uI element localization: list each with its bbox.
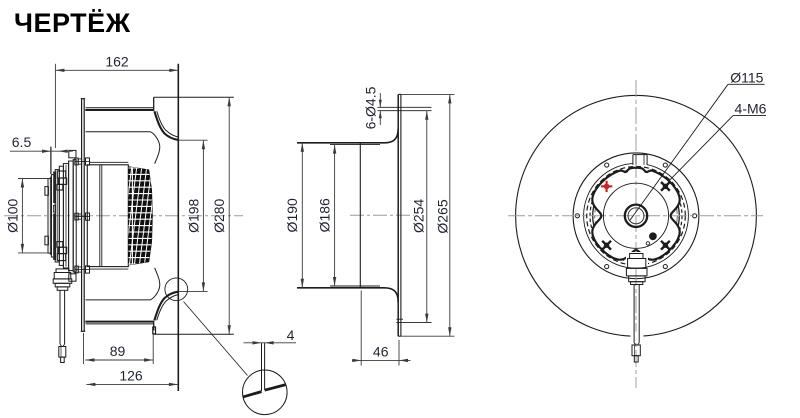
right view: centerlines: [635, 80, 637, 388]
right view: bolt circle D115 centerline circle: [595, 175, 678, 258]
dimension D190: [284, 143, 304, 288]
svg-text:Ø254: Ø254: [410, 199, 426, 233]
right view: motor flange wavy edge: [592, 168, 679, 260]
svg-text:89: 89: [110, 343, 126, 359]
left view: motor housing stepped profile: [48, 160, 76, 272]
svg-text:162: 162: [105, 54, 129, 70]
left view: mounting plate: [81, 99, 86, 332]
middle view: inlet ring cylinder: [297, 143, 380, 288]
right view: stator rings dashed: [587, 167, 686, 266]
left view: motor clamp band dark segments: [53, 172, 56, 261]
svg-text:4: 4: [287, 327, 295, 343]
right view: cable through circle with break: [631, 332, 644, 340]
left view: motor cable and connector: [59, 290, 66, 362]
svg-text:Ø115: Ø115: [730, 69, 763, 85]
svg-text:Ø198: Ø198: [185, 198, 201, 232]
right view: shaft center circles: [625, 205, 647, 227]
right view: four M6 holes with position marks: [601, 181, 670, 250]
right view: flange inner boss circle: [603, 183, 668, 248]
dimension 6.5: [10, 134, 73, 174]
right view: impeller outer circle D280: [516, 95, 757, 336]
dimension 6-D4.5: [363, 86, 382, 129]
middle view: flange face: [398, 94, 401, 336]
label 4-M6 with leader: [668, 101, 766, 182]
right view: support ring inner circle: [584, 163, 689, 268]
svg-text:Ø100: Ø100: [5, 198, 21, 232]
dimension D198: [179, 140, 208, 291]
svg-text:126: 126: [119, 367, 143, 383]
dimension 126 bottom: [86, 367, 178, 386]
svg-text:Ø265: Ø265: [434, 199, 450, 233]
dimension D100 left: [5, 179, 50, 253]
right view: top clip tab: [633, 155, 647, 165]
left view: rotor body: [87, 162, 128, 269]
svg-text:6-Ø4.5: 6-Ø4.5: [363, 86, 379, 129]
left view: motor cover rib tabs: [57, 171, 67, 261]
svg-text:4-M6: 4-M6: [735, 101, 767, 117]
middle view: bell fillets to flange: [370, 129, 398, 303]
left view: shell front edge: [153, 97, 155, 330]
right view: six rim screw holes: [575, 163, 696, 269]
left view: flange mounting lip bottom: [153, 327, 156, 334]
right view: cable gland stack: [626, 252, 648, 285]
page title: [14, 8, 131, 39]
left view: shell inner wall and front curl: [86, 132, 160, 300]
detail indicator circle on flange lip: [165, 278, 188, 301]
svg-text:6.5: 6.5: [12, 134, 32, 150]
left view: inlet bell curves: [154, 111, 178, 320]
dimension D265: [401, 94, 455, 336]
svg-text:Ø186: Ø186: [317, 198, 333, 232]
left view: motor cable gland: [53, 269, 72, 290]
svg-text:46: 46: [373, 343, 389, 359]
middle view: centerline: [350, 214, 414, 216]
left view: motor cover inner fold lines: [50, 165, 66, 267]
dimension 46 bottom: [352, 291, 411, 366]
dimension D186: [317, 145, 337, 286]
svg-text:Ø190: Ø190: [284, 198, 300, 232]
middle view: bolt hole lines: [378, 107, 432, 322]
left view: horizontal centerline: [4, 215, 243, 217]
dimension 4 of detail: [244, 327, 297, 345]
right view: motor support ring outer circle: [573, 153, 699, 279]
dimension D254: [410, 111, 428, 323]
left view: three through-bolts with nuts: [75, 158, 90, 273]
dimension 162 top: [55, 54, 178, 149]
svg-text:Ø280: Ø280: [211, 198, 227, 232]
left view: terminal screws on motor cover: [45, 187, 49, 245]
left view: inlet flange top and bottom: [154, 97, 234, 334]
left view: flange face vertical line: [177, 64, 179, 391]
detail view flange lip lines: [243, 343, 285, 397]
dimension D280: [211, 97, 231, 334]
leader line to detail view: [184, 302, 248, 376]
left view: motor flange bosses top and bottom: [69, 150, 76, 281]
right view: balance dot and small hole: [646, 233, 656, 245]
detail view circle: [242, 370, 287, 415]
dimension 89 bottom: [84, 333, 154, 364]
left view: rotating shell outer cylinder D280: [85, 108, 153, 324]
label D115 with leader: [630, 69, 765, 220]
